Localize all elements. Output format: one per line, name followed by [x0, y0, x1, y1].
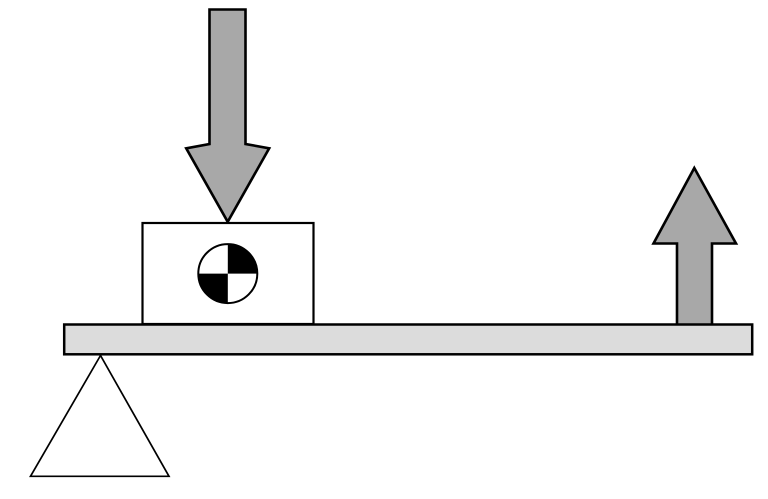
upward force arrow: [654, 168, 737, 326]
center of mass symbol: [198, 244, 257, 303]
fulcrum triangle: [31, 356, 170, 477]
downward force arrow: [186, 10, 269, 222]
lever beam: [64, 325, 752, 355]
mass block box: [143, 223, 314, 324]
